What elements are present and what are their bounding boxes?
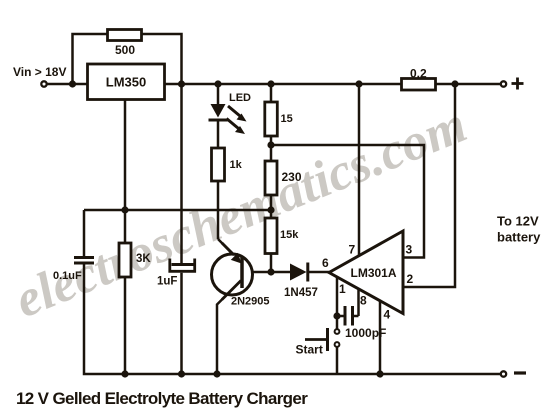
wire 230 to 15k [270,195,273,218]
svg-text:LM301A: LM301A [351,266,397,280]
resistor 15k [265,218,277,254]
wire 1uF bottom stem [180,273,183,374]
wire 15 resistor top stem [270,84,273,102]
wire 1k to emitter [217,181,220,239]
svg-text:4: 4 [384,308,391,322]
svg-text:battery: battery [497,230,541,245]
node pin4 ground [376,370,383,377]
node 230/15k junction [267,206,274,213]
wire pin 8 down [357,289,360,316]
terminal minus [501,371,506,376]
wire start switch to bottom rail [336,347,339,374]
wire LED branch top stem [217,84,220,105]
svg-text:6: 6 [322,256,329,270]
svg-text:3: 3 [406,243,413,257]
wire pin 4 to bottom rail [379,301,382,374]
svg-text:0.1uF: 0.1uF [53,270,82,282]
resistor 0.2 [402,79,436,91]
wire 15 to 230 [270,136,273,161]
wire 0.1uF top stem [83,210,86,257]
node input junction [69,80,76,87]
svg-text:3K: 3K [136,253,151,265]
wire divider junction to diode [271,271,290,274]
svg-text:0.2: 0.2 [410,67,427,81]
svg-text:1000pF: 1000pF [345,326,386,340]
node LM350 output [178,80,185,87]
node LED branch [214,80,221,87]
wire transistor base to divider [243,271,271,274]
wire 3K bottom stem [124,277,127,374]
wire 500 bypass loop right [141,34,182,84]
resistor 1k [212,148,225,181]
wire emitter diagonal [218,239,236,258]
wire 0.1uF bottom stem to bottom rail corner [84,264,501,375]
wire diode to op-amp pin 6 [308,271,330,274]
LED arrow 2 [227,119,239,129]
svg-text:Vin > 18V: Vin > 18V [13,65,66,79]
wire pin 1 down [336,278,339,317]
svg-text:1uF: 1uF [157,276,177,288]
start switch S1 [335,329,340,334]
regulator U1 LM350 [88,64,165,100]
svg-text:1N457: 1N457 [284,287,318,299]
node pin7 supply [355,80,362,87]
wire pin 2 to output sense [404,84,455,287]
emitter inside with arrow [222,243,234,255]
node 1uF ground [178,370,185,377]
wire collector diagonal [217,281,241,375]
svg-text:7: 7 [349,243,356,257]
node output sense [451,80,458,87]
svg-text:2N2905: 2N2905 [231,296,270,308]
svg-text:LED: LED [229,92,251,104]
wire top rail input to LM350 [47,83,89,86]
svg-text:15k: 15k [280,229,299,241]
diode D2 1N457 [290,264,307,281]
node 3K ground [121,370,128,377]
transistor Q1 2N2905 [212,254,253,295]
node pin1/cap junction [333,312,340,319]
node 15/230 junction [267,141,274,148]
collector inside [222,281,241,300]
node collector ground [213,370,220,377]
base bar [240,256,244,288]
wire 3K top stem [124,210,127,243]
wire 15k bottom stem [270,254,273,273]
node ADJ [121,206,128,213]
terminal Vin [41,81,46,86]
svg-text:To 12V: To 12V [497,214,539,229]
wire pin 1 to 1000pF left plate [337,315,344,318]
svg-text:12 V Gelled Electrolyte Batter: 12 V Gelled Electrolyte Battery Charger [16,389,308,408]
wire pin 7 to top rail [358,84,361,257]
svg-text:500: 500 [115,43,135,57]
svg-text:15: 15 [281,113,293,125]
LED arrow 1 [228,106,240,116]
svg-text:1k: 1k [230,159,243,171]
resistor 230 [265,161,277,195]
resistor 15 [265,102,278,136]
resistor 3K [119,243,131,277]
wire pin 1 node to start switch [336,316,339,329]
node divider top [267,80,274,87]
svg-text:Start: Start [296,343,323,357]
wire top rail LM350 output to 0.2 resistor [164,83,402,86]
svg-text:8: 8 [360,294,367,308]
wire feedback from 15/230 junction to pin 3 [271,145,424,258]
wire LM350 output down to 1uF [180,84,183,264]
wire LM350 ADJ pin down [124,100,127,211]
capacitor 0.1uF [74,256,94,259]
terminal plus [501,81,506,86]
LED D1 [211,104,226,118]
wire top rail 0.2 resistor to plus terminal [435,83,501,86]
svg-text:LM350: LM350 [106,75,146,90]
wire 500 bypass loop left [73,34,109,84]
capacitor 1uF [172,263,194,266]
wire LED to 1k [217,122,220,149]
svg-text:1: 1 [339,282,346,296]
svg-text:230: 230 [282,170,302,184]
node 15k/diode junction [267,268,274,275]
resistor 500 [108,30,142,41]
capacitor 1000pF [344,306,347,326]
wire 1000pF right plate to pin 8 stem [353,315,359,318]
op-amp U2 LM301A [329,231,403,314]
wire ADJ rail horizontal [84,209,271,212]
svg-text:2: 2 [407,272,414,286]
